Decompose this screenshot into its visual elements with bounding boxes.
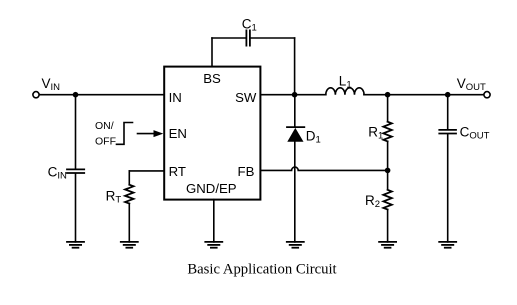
wire R1 bottom to FB node [387,141,389,170]
capacitor COUT [439,130,456,134]
svg-text:ON/: ON/ [95,120,114,132]
ground COUT [439,242,456,248]
terminal VOUT [484,92,490,98]
capacitor C1 [246,30,250,45]
ground R2 [379,242,396,248]
EN rising-edge symbol [117,123,133,145]
wire C1 left [212,37,245,39]
svg-text:COUT: COUT [460,125,490,142]
inductor L1 [326,88,364,95]
wire R2 to ground [387,210,389,242]
wire L1 to VOUT node [364,94,388,96]
node R1 top junction [385,92,391,98]
svg-text:BS: BS [203,71,221,86]
node FB divider junction [385,168,391,174]
svg-text:C1: C1 [242,17,257,34]
wire VIN to IN pin [39,94,164,96]
node VIN/CIN junction [73,92,79,98]
wire CIN top [75,95,77,169]
wire SW node to L1 [295,94,326,96]
ground RT [121,242,138,248]
wire to VOUT terminal [448,94,484,96]
resistor RT [125,185,133,204]
svg-text:GND/EP: GND/EP [186,181,237,196]
terminal VIN [33,92,39,98]
svg-text:FB: FB [238,164,255,179]
diode D1 [287,127,304,142]
resistor R2 [383,190,391,210]
wire D1 to ground [294,142,296,242]
wire to COUT node [388,94,448,96]
svg-text:D1: D1 [306,128,321,145]
svg-text:R1: R1 [368,125,383,142]
wire R1 top [387,95,389,122]
svg-text:Basic Application Circuit: Basic Application Circuit [187,262,336,278]
wire COUT bottom [447,134,449,242]
wire D1 anode top [294,95,296,127]
svg-text:IN: IN [169,90,182,105]
node COUT junction [445,92,451,98]
wire RT down [128,171,130,185]
wire COUT top [447,95,449,129]
node SW junction [292,92,298,98]
wire CIN bottom [75,174,77,242]
svg-text:RT: RT [106,188,122,205]
wire FB pin with hop over D1 wire [260,167,387,170]
wire RT to ground [128,204,130,242]
svg-text:SW: SW [235,90,257,105]
wire BS pin up [211,38,213,67]
wire C1 right [251,37,295,39]
wire SW pin [260,94,294,96]
ground GND/EP [205,242,222,248]
capacitor CIN [67,169,84,173]
wire R2 top [387,170,389,189]
svg-text:CIN: CIN [48,165,67,182]
wire RT pin [129,170,164,172]
svg-text:L1: L1 [339,74,352,91]
op-amp U1 (IC box) [164,67,260,200]
svg-text:VOUT: VOUT [457,76,486,93]
wire C1 down to SW node [294,38,296,95]
svg-text:VIN: VIN [42,76,61,93]
svg-text:EN: EN [169,126,187,141]
resistor R1 [383,122,391,142]
ground D1 [287,242,304,248]
arrow into EN pin [138,130,164,137]
svg-text:RT: RT [169,164,186,179]
svg-text:R2: R2 [365,193,380,210]
svg-text:OFF: OFF [95,135,116,147]
wire GND/EP pin down [213,200,215,242]
ground CIN [67,242,84,248]
